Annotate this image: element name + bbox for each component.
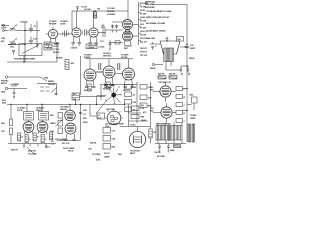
svg-text:TO B+: TO B+ bbox=[130, 125, 136, 127]
svg-text:C34 .01: C34 .01 bbox=[154, 151, 161, 154]
wire bbox=[56, 42, 58, 62]
wire bbox=[150, 82, 152, 123]
svg-text:L5 456KC: L5 456KC bbox=[107, 13, 116, 16]
grid caps left of V4 bbox=[111, 25, 118, 33]
svg-text:FIELD: FIELD bbox=[189, 58, 195, 60]
svg-text:47K: 47K bbox=[71, 62, 75, 65]
rotary switch SW3 hub bbox=[106, 86, 122, 104]
svg-text:RECT: RECT bbox=[130, 153, 136, 155]
right small boxes column bbox=[176, 87, 186, 124]
wire speaker to rail bbox=[180, 46, 187, 48]
wire vertical bus bbox=[24, 22, 26, 62]
svg-text:2ND AF: 2ND AF bbox=[60, 108, 68, 111]
coil hash L6 bbox=[11, 83, 20, 87]
wire AVC bus bbox=[7, 61, 57, 63]
svg-text:HTRS: HTRS bbox=[190, 118, 196, 120]
svg-text:NOTES ALL: NOTES ALL bbox=[145, 1, 157, 4]
phono terminal bbox=[1, 76, 9, 85]
oscillator tuning box with arrow bbox=[19, 44, 42, 56]
small box top right bbox=[177, 37, 184, 42]
svg-text:L5 456: L5 456 bbox=[99, 46, 106, 49]
voltage chart bracket bbox=[138, 2, 140, 45]
svg-text:R2 47K: R2 47K bbox=[53, 51, 60, 54]
switch box bbox=[37, 84, 57, 96]
svg-text:GND: GND bbox=[1, 92, 6, 94]
svg-text:C13 .002: C13 .002 bbox=[107, 8, 115, 10]
far right box bbox=[187, 95, 197, 111]
svg-text:OHM: OHM bbox=[141, 120, 146, 122]
text labels bbox=[105, 123, 124, 129]
tube V1 bbox=[46, 27, 58, 44]
resistor R9 bbox=[65, 60, 75, 70]
rectifier tube V13 bbox=[129, 127, 145, 148]
wire vertical bbox=[36, 21, 38, 48]
svg-text:VOLUME: VOLUME bbox=[28, 154, 37, 156]
pin to bus bbox=[69, 104, 71, 110]
svg-text:PILOT LAMP: PILOT LAMP bbox=[63, 147, 75, 150]
resistor right of tube bbox=[149, 123, 158, 144]
svg-text:V3 180: V3 180 bbox=[140, 14, 147, 16]
B+ rail bbox=[186, 5, 188, 143]
wire top right bbox=[152, 4, 187, 6]
svg-text:AC LINE: AC LINE bbox=[157, 155, 165, 158]
trimmer table box bbox=[44, 42, 52, 50]
wires bus to cans bbox=[27, 104, 42, 111]
pilot lamp text bbox=[63, 147, 75, 153]
IF transformer T3 marks bbox=[83, 30, 88, 36]
wire candohm down bbox=[75, 100, 77, 104]
V4B pins and label bbox=[124, 40, 133, 50]
svg-text:CAP IN MF: CAP IN MF bbox=[145, 6, 155, 9]
wire from candohm bbox=[80, 96, 106, 98]
svg-text:R9 47K: R9 47K bbox=[56, 57, 63, 60]
label V11 bbox=[150, 87, 154, 92]
svg-text:C6 .05: C6 .05 bbox=[53, 46, 59, 48]
svg-text:PUT TO: PUT TO bbox=[140, 52, 147, 54]
wire bbox=[136, 82, 138, 123]
wire bbox=[8, 44, 25, 46]
svg-text:V4 6SQ7: V4 6SQ7 bbox=[124, 45, 133, 48]
grid leak parts left of V4B bbox=[109, 40, 123, 50]
wire interstage bbox=[58, 33, 72, 35]
wire bbox=[16, 30, 40, 32]
svg-text:1MEG: 1MEG bbox=[50, 123, 56, 125]
svg-text:TO ALL: TO ALL bbox=[190, 114, 198, 117]
svg-text:C19 .1: C19 .1 bbox=[45, 147, 51, 149]
svg-text:WITH VTVM LINE 117V AC: WITH VTVM LINE 117V AC bbox=[146, 16, 170, 19]
label V10 bbox=[60, 107, 70, 112]
svg-text:R21 5K: R21 5K bbox=[169, 74, 176, 76]
tube V4A bbox=[123, 20, 133, 30]
text cluster bbox=[107, 8, 116, 16]
svg-text:20MF: 20MF bbox=[190, 48, 196, 50]
bottom wire bbox=[155, 143, 186, 145]
line cord bars bbox=[188, 124, 195, 142]
tube V7 bbox=[123, 68, 135, 86]
svg-text:V9 120: V9 120 bbox=[140, 35, 147, 37]
svg-text:LAMP: LAMP bbox=[104, 156, 110, 159]
resistor R4 on bus bbox=[93, 9, 101, 19]
resistor box bbox=[131, 115, 145, 119]
svg-text:SW2 ON: SW2 ON bbox=[28, 151, 36, 153]
svg-text:V13 5Y3GT: V13 5Y3GT bbox=[130, 151, 141, 153]
candohm box bbox=[72, 93, 80, 101]
svg-text:ALL DC: ALL DC bbox=[140, 41, 148, 44]
ground bus center bbox=[57, 140, 81, 142]
svg-text:RADIO: RADIO bbox=[48, 80, 55, 83]
svg-text:FIELD: FIELD bbox=[150, 68, 156, 70]
tube V3 bbox=[89, 11, 98, 42]
wire top of middle row bbox=[85, 58, 133, 60]
wire bbox=[96, 97, 98, 105]
tube V8 bbox=[23, 120, 34, 132]
capacitor on bus bbox=[76, 7, 87, 12]
svg-text:R8 470K: R8 470K bbox=[107, 10, 115, 13]
switch label bbox=[104, 85, 115, 90]
svg-text:R17 C21: R17 C21 bbox=[62, 143, 70, 145]
wire bbox=[23, 56, 25, 63]
antenna loop coil L1 bbox=[10, 24, 18, 31]
svg-text:T5 POWER 117V: T5 POWER 117V bbox=[156, 124, 171, 126]
svg-text:C1B: C1B bbox=[1, 38, 5, 40]
tube V10A bbox=[65, 110, 76, 121]
ground arrows below bus bbox=[23, 144, 47, 149]
resistor bottom right bbox=[174, 145, 181, 148]
transformer bottom wires bbox=[158, 140, 182, 144]
junction bbox=[24, 30, 25, 31]
svg-text:6SK7 IF: 6SK7 IF bbox=[11, 150, 19, 152]
left edge text bbox=[1, 38, 5, 43]
wire vertical from bus bbox=[128, 104, 130, 126]
svg-text:PILOT: PILOT bbox=[104, 153, 110, 155]
svg-text:FLD: FLD bbox=[98, 118, 102, 120]
marks below V10B bbox=[62, 134, 76, 145]
resistor under V5 bbox=[88, 84, 91, 91]
antenna terminals bbox=[2, 24, 9, 31]
resistor R20 bbox=[158, 74, 166, 80]
ground terminal bbox=[1, 87, 8, 93]
wire bbox=[133, 25, 139, 37]
labels above IF cans bbox=[17, 107, 45, 113]
cap pair bbox=[158, 144, 161, 153]
svg-text:AVC: AVC bbox=[2, 99, 7, 102]
wire bbox=[105, 29, 123, 31]
filter caps bbox=[180, 65, 190, 75]
tube V2 bbox=[72, 11, 81, 42]
tube V4B bbox=[123, 31, 133, 41]
column 2 caps bbox=[140, 85, 152, 108]
svg-text:V11 V12: V11 V12 bbox=[140, 55, 148, 57]
transformer secondary bbox=[171, 126, 183, 141]
marks below V3 bbox=[88, 43, 99, 50]
svg-text:NO 47: NO 47 bbox=[68, 150, 74, 153]
cap to ground bbox=[13, 89, 16, 99]
text rows filter bbox=[130, 105, 147, 127]
tube V11 bbox=[153, 82, 176, 102]
capacitor C3 bbox=[29, 37, 38, 45]
svg-text:C10 R6: C10 R6 bbox=[71, 48, 78, 50]
marks below V2 bbox=[71, 43, 82, 50]
text cluster mixer bbox=[53, 43, 60, 54]
marks below ground bus bbox=[27, 144, 38, 156]
svg-text:250K: 250K bbox=[83, 122, 88, 124]
variable coil L2 bbox=[8, 38, 17, 45]
svg-text:CONV: CONV bbox=[60, 24, 66, 26]
resistor R21 bbox=[169, 74, 177, 80]
small cap top right bbox=[166, 37, 169, 43]
marks below middle tubes bbox=[84, 87, 96, 93]
tube V12 bbox=[153, 103, 176, 122]
choke box bbox=[131, 106, 145, 111]
phono switch text bbox=[44, 78, 56, 86]
labels above middle tubes bbox=[84, 53, 129, 59]
tube V10B bbox=[65, 123, 76, 134]
IF output can bbox=[86, 44, 105, 49]
svg-text:LOOP: LOOP bbox=[1, 28, 7, 30]
svg-text:R25 56: R25 56 bbox=[90, 143, 97, 145]
right column of V10 bbox=[79, 104, 88, 140]
box right bbox=[90, 104, 105, 119]
svg-text:DIAL 1620: DIAL 1620 bbox=[146, 37, 156, 40]
output transformer T4 bbox=[164, 48, 174, 62]
svg-text:R12 C17: R12 C17 bbox=[123, 90, 131, 92]
svg-text:C22 .05 400V: C22 .05 400V bbox=[55, 138, 67, 141]
speaker cone bbox=[160, 41, 180, 54]
junctions bbox=[26, 104, 27, 105]
wire top bbox=[100, 84, 137, 86]
resistor bank labels bbox=[22, 137, 48, 142]
rail side text bbox=[190, 114, 198, 120]
svg-text:PUSH BUTTON TUNER: PUSH BUTTON TUNER bbox=[14, 59, 35, 61]
wire bbox=[8, 88, 27, 90]
switch wafer 2 bbox=[105, 109, 123, 125]
svg-text:DET AVC: DET AVC bbox=[103, 55, 112, 58]
svg-text:L4 OSC: L4 OSC bbox=[84, 8, 91, 11]
wires tubes to resistors bbox=[24, 132, 47, 135]
svg-text:1ST IF: 1ST IF bbox=[17, 110, 23, 112]
junction bbox=[124, 104, 125, 105]
resistor under V6 bbox=[107, 82, 110, 89]
marks left of speaker bbox=[151, 42, 157, 50]
bottom resistor bank bbox=[18, 133, 21, 141]
svg-text:C1A 420: C1A 420 bbox=[20, 21, 28, 24]
terminal circle bbox=[150, 63, 163, 70]
wire bbox=[112, 21, 123, 23]
svg-text:V2 6SA7: V2 6SA7 bbox=[60, 20, 68, 23]
svg-text:C7 100: C7 100 bbox=[53, 49, 60, 51]
notes text block bbox=[145, 1, 157, 9]
svg-text:C32 10MF C33: C32 10MF C33 bbox=[158, 82, 172, 84]
chart ticks bbox=[139, 5, 142, 40]
svg-text:2ND IF: 2ND IF bbox=[36, 110, 43, 112]
left tick marks column bbox=[51, 138, 67, 144]
wire bbox=[127, 0, 129, 20]
column 1 caps bbox=[125, 85, 137, 112]
bus wire AVC bbox=[7, 103, 125, 105]
junction box between V4 sections bbox=[126, 30, 130, 33]
text under chart bbox=[140, 47, 148, 57]
B+ top bus bbox=[72, 10, 128, 12]
scattered text right bbox=[88, 143, 101, 162]
label 5Y3 bbox=[130, 151, 141, 156]
junction bbox=[23, 61, 24, 62]
wire bbox=[97, 85, 107, 101]
left column resistors bbox=[1, 104, 13, 143]
cap pair 2 bbox=[167, 144, 170, 153]
coupling parts right of V3 bbox=[98, 24, 106, 43]
svg-text:OSC: OSC bbox=[10, 47, 15, 49]
transformer primary bbox=[156, 126, 168, 141]
svg-text:RF AMP: RF AMP bbox=[49, 23, 57, 26]
phono wire bbox=[8, 77, 47, 81]
wire bbox=[71, 11, 73, 30]
svg-text:ALIGN 456KC 1620KC: ALIGN 456KC 1620KC bbox=[146, 30, 166, 33]
wire vertical left bbox=[80, 56, 82, 95]
svg-text:BUS: BUS bbox=[2, 103, 7, 105]
svg-text:NO SIGNAL VOL MIN: NO SIGNAL VOL MIN bbox=[146, 22, 165, 25]
IF transformer T2 marks bbox=[63, 31, 68, 37]
svg-text:V7 250: V7 250 bbox=[140, 28, 147, 30]
text power label bbox=[2, 99, 7, 105]
capacitor on rail bbox=[185, 44, 196, 50]
wire to speaker bbox=[150, 43, 160, 45]
wire bbox=[120, 126, 150, 128]
core lines bbox=[168, 125, 169, 142]
tube V6 bbox=[103, 66, 115, 84]
ground bus bottom left bbox=[8, 143, 56, 145]
cathode parts below V1 bbox=[46, 44, 59, 50]
bottom text bbox=[104, 153, 123, 159]
wire bbox=[166, 66, 188, 70]
svg-text:T4 OUT: T4 OUT bbox=[140, 47, 148, 50]
coupling caps between bbox=[96, 63, 123, 74]
voltage chart rows bbox=[140, 3, 149, 44]
svg-text:VOLTAGES MEAS TO CHAS: VOLTAGES MEAS TO CHAS bbox=[146, 10, 172, 13]
svg-text:TO HTRS: TO HTRS bbox=[92, 154, 101, 156]
transformer top stub wires bbox=[158, 122, 182, 126]
IF can L8 bbox=[39, 112, 49, 121]
capacitor C1 bbox=[29, 24, 37, 33]
wire bbox=[129, 113, 149, 121]
svg-text:INPUT: INPUT bbox=[1, 83, 8, 85]
long diagonal wire bbox=[96, 101, 107, 114]
svg-text:R20 1K: R20 1K bbox=[158, 74, 165, 76]
tube pins up bbox=[90, 59, 129, 69]
left small boxes bbox=[103, 128, 116, 150]
transformer secondary wires bbox=[166, 62, 171, 71]
label V12 bbox=[150, 108, 154, 113]
tube V5 bbox=[84, 69, 96, 86]
svg-text:L6 WAVE: L6 WAVE bbox=[11, 83, 20, 86]
volume pot column bbox=[50, 113, 63, 134]
capacitor C4 bbox=[12, 51, 15, 55]
IF can L7 bbox=[24, 112, 34, 121]
tube V9 bbox=[37, 120, 48, 132]
svg-text:OSC PAD: OSC PAD bbox=[106, 108, 115, 111]
text bottom right bbox=[154, 149, 175, 158]
rail junctions bbox=[183, 88, 188, 111]
svg-text:PHONO: PHONO bbox=[48, 84, 56, 86]
